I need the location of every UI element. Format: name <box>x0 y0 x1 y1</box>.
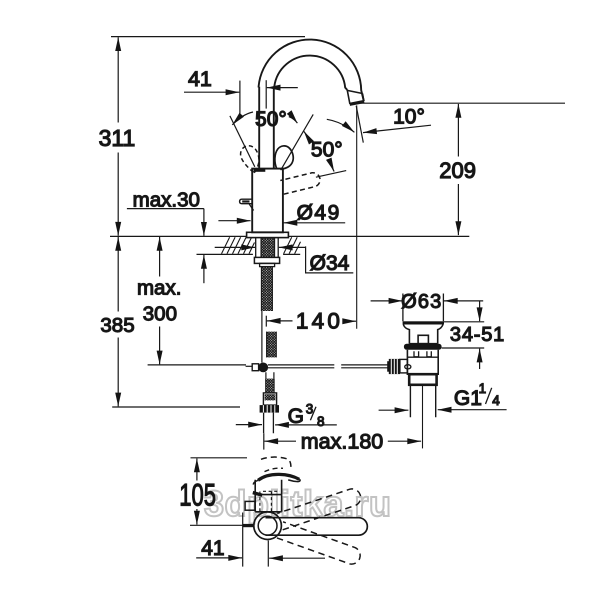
lever dashed capsule (down position) <box>280 173 320 194</box>
deck top line <box>110 235 469 237</box>
rod link below ball joint <box>266 372 274 378</box>
deck bottom line <box>197 253 301 255</box>
dim 209 <box>457 104 459 157</box>
svg-text:Ø63: Ø63 <box>401 291 442 313</box>
spout riser left wall <box>258 87 260 169</box>
spout aerator joint line <box>347 90 362 93</box>
dim 385 <box>117 237 119 312</box>
front view dark tilted bar <box>252 491 262 497</box>
hose end G3/8 pipe <box>264 413 274 434</box>
faucet base flange <box>247 232 289 237</box>
dim 34-51 <box>479 301 481 321</box>
svg-text:Ø49: Ø49 <box>297 202 341 225</box>
svg-text:140: 140 <box>296 308 343 333</box>
front view aerator nub <box>245 501 255 510</box>
svg-text:max.30: max.30 <box>133 188 200 211</box>
front view hood right end <box>288 479 300 481</box>
front view body walls <box>255 480 281 512</box>
top reference line <box>111 36 305 38</box>
threaded shank braided rod <box>261 238 275 258</box>
svg-text:G: G <box>288 405 304 428</box>
svg-text:max.180: max.180 <box>301 429 384 453</box>
front view lever arm solid capsule <box>266 518 368 536</box>
braided supply hose segment A <box>261 267 272 311</box>
deck hatching <box>222 237 301 254</box>
front view hood solid thick crescent <box>258 474 299 480</box>
braided supply hose segment C <box>266 379 274 393</box>
svg-text:41: 41 <box>188 67 212 91</box>
front view hood left edge <box>253 480 258 484</box>
svg-text:209: 209 <box>439 158 476 183</box>
svg-text:50°: 50° <box>255 108 287 131</box>
drain body <box>407 350 438 374</box>
pop-up knob stem diagonal <box>249 204 253 211</box>
shank locknut <box>254 257 279 263</box>
front view pivot boss bar <box>243 524 254 527</box>
svg-text:34-51: 34-51 <box>450 324 505 346</box>
svg-text:8: 8 <box>317 414 325 429</box>
braided supply hose segment B <box>267 332 277 358</box>
shank washer below locknut <box>260 263 275 266</box>
lever axis line left dashed position <box>230 116 255 167</box>
dim 105 <box>191 457 248 459</box>
svg-text:41: 41 <box>201 537 224 560</box>
svg-text:max.: max. <box>137 276 181 299</box>
water stream vertical reference line <box>356 105 358 328</box>
front view hood dashed (lever raised) <box>261 457 291 469</box>
svg-text:Ø34: Ø34 <box>310 252 350 275</box>
front view lever arm dashed raised capsule <box>277 489 360 530</box>
pop-up rod clevis <box>252 364 258 371</box>
drain flange side walls / extension lines <box>403 294 444 322</box>
front view pivot inner circle <box>258 516 277 535</box>
dim 41 bottom <box>242 513 244 567</box>
spout outlet face thick edge <box>350 102 365 105</box>
dim diameter 49 <box>218 220 250 222</box>
front view hood dashed inner line <box>265 468 284 471</box>
dim diameter 63 <box>371 300 403 302</box>
spout riser right wall <box>273 87 275 169</box>
svg-text:311: 311 <box>99 125 136 151</box>
pop-up horizontal rod to drain <box>268 365 389 368</box>
lever axis extension of down position <box>316 171 346 178</box>
dim diameter 34 <box>215 246 255 248</box>
dim G3/8 <box>236 424 262 426</box>
svg-text:50°: 50° <box>311 139 343 162</box>
drain set screw oval <box>405 365 411 369</box>
drain flange bottom thick rim <box>403 321 444 324</box>
spout arc outer wall <box>259 40 364 102</box>
pop-up knob on body left <box>240 199 253 204</box>
drain lower thick box <box>409 374 436 385</box>
spout arc inner wall <box>274 56 347 90</box>
threaded shank outer walls <box>256 238 279 258</box>
drain neck <box>403 325 443 344</box>
drain plug knob <box>418 335 428 343</box>
pop-up knob inner dark bar <box>242 200 249 202</box>
drain rubber washer <box>404 344 442 350</box>
dim G1 1/4 <box>379 409 409 411</box>
front view pivot outer circle <box>254 512 282 540</box>
pop-up rod ball joint <box>258 363 268 373</box>
front view body hidden dashed lines <box>260 491 280 512</box>
dim 311 <box>117 37 119 122</box>
hose end fitting upper nut <box>263 393 276 405</box>
svg-text:10°: 10° <box>393 106 425 129</box>
hose end knurled nut <box>260 405 279 413</box>
drain centerline extension <box>422 385 424 449</box>
dim max.180 <box>264 440 296 442</box>
faucet body rectangle <box>252 169 283 233</box>
pop-up rod vertical <box>261 311 263 363</box>
drain body band line <box>407 356 438 358</box>
svg-text:385: 385 <box>100 314 134 337</box>
lever knob dashed (left position) <box>241 146 259 173</box>
drain knurled nut end cap <box>387 361 389 372</box>
spout aerator body <box>347 90 364 104</box>
dim max.300 <box>159 237 161 277</box>
dim 140 <box>267 320 293 322</box>
svg-text:300: 300 <box>143 302 177 325</box>
drain body notches <box>414 351 431 357</box>
svg-text:4: 4 <box>492 393 500 408</box>
drain knurled nut <box>389 359 400 374</box>
pop-up horizontal rod left stub <box>246 365 253 367</box>
svg-text:1: 1 <box>479 381 487 396</box>
faucet body top black tab <box>254 169 266 172</box>
lever knob solid (right position) <box>275 146 293 169</box>
drain tailpipe G1 1/4 <box>410 385 435 417</box>
lever axis line solid position <box>281 114 314 170</box>
water stream 10-degree slant line <box>356 106 363 143</box>
drain rod housing <box>400 359 408 373</box>
watermark 3dplitka.ru <box>204 483 392 524</box>
svg-text:105: 105 <box>179 477 216 513</box>
front view lever arm dashed lowered capsule <box>277 522 360 564</box>
